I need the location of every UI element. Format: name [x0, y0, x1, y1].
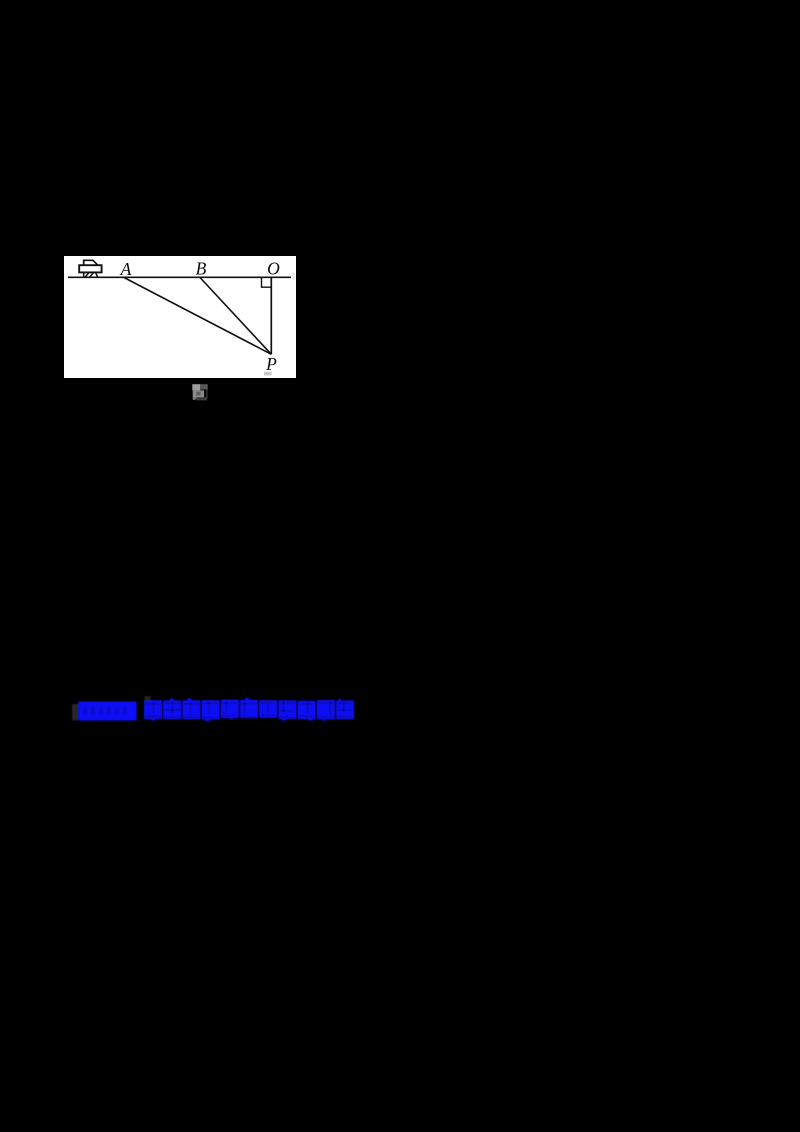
gray mark under P	[264, 372, 272, 376]
boat icon body	[79, 265, 101, 272]
heading text glyphs	[144, 696, 354, 721]
svg-text:P: P	[265, 354, 277, 374]
line O to P (vertical)	[270, 277, 272, 354]
faint smudge right of line end	[292, 273, 294, 280]
svg-text:B: B	[196, 259, 207, 279]
svg-text:O: O	[267, 259, 280, 279]
gray tick before tag block	[72, 704, 78, 720]
geometry diagram svg	[64, 256, 296, 378]
boat hatch marks	[84, 272, 98, 276]
ground line AO	[68, 276, 291, 278]
right angle mark at O	[262, 278, 272, 287]
boat icon cab	[84, 260, 98, 265]
line B to P	[200, 278, 271, 355]
gray caption glyph below figure	[190, 382, 212, 402]
line A to P	[124, 278, 271, 355]
figure panel (white box)	[64, 256, 296, 378]
svg-text:A: A	[120, 259, 132, 279]
heading tag block	[78, 702, 136, 721]
blue heading svg	[66, 694, 376, 728]
